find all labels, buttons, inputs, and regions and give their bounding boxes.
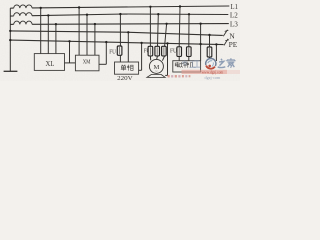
wire welder lead 1 <box>178 7 181 47</box>
wire PE bond drop 3 <box>141 43 143 70</box>
node N tap welder <box>208 34 210 36</box>
node L2 tap XM <box>86 14 88 16</box>
node star-N junction <box>9 30 11 32</box>
watermark ghost 电 <box>183 60 188 65</box>
wire 220V phase drop from L2 <box>119 14 121 62</box>
wire PE bond drop 4 <box>167 43 169 75</box>
wire PE bond link 1 <box>65 62 76 64</box>
motor M1 circle <box>149 59 163 73</box>
watermark logo circle <box>206 58 216 69</box>
scan noise overlay <box>0 0 1 1</box>
watermark red small text under welder <box>168 75 191 78</box>
wire XM drop L3 <box>94 24 96 55</box>
ground electrode <box>4 70 18 72</box>
wire XL drop L3 <box>55 24 57 53</box>
node PE tap 3 <box>140 42 142 44</box>
node L3 tap welder <box>199 23 201 25</box>
wire motor lead 3 <box>165 24 167 47</box>
fuse FU 220V <box>119 46 121 55</box>
wire PE bond drop 2 <box>105 42 107 64</box>
node star-PE junction <box>9 39 11 41</box>
wire motor lead 2 <box>157 14 160 46</box>
node L3 tap XL <box>55 23 57 25</box>
wire welder lead 2 <box>188 14 190 47</box>
node PE tap 5 <box>215 43 217 45</box>
node L1 tap welder <box>179 5 181 7</box>
node PE tap 1 <box>68 40 70 42</box>
wire PE bond link 3 <box>139 69 142 71</box>
wire bus N <box>10 31 223 36</box>
box welder <box>173 61 201 72</box>
wire 220V neutral drop from N <box>127 32 129 62</box>
wire PE bond link 4 <box>165 74 167 76</box>
box XM <box>75 55 99 71</box>
node L2 tap XL <box>47 14 49 16</box>
watermark 之 <box>218 59 226 68</box>
wire XL drop L1 <box>40 8 42 54</box>
node PE tap 4 <box>166 42 168 44</box>
wire XL drop L2 <box>47 15 49 53</box>
node L1 tap XL <box>40 7 42 9</box>
node PE tap 2 <box>105 41 107 43</box>
label 电焊机 (welder) <box>175 62 193 68</box>
wire bus L3 <box>10 23 13 25</box>
node L1 tap motor <box>149 6 151 8</box>
inductor winding phase L3 <box>14 21 32 24</box>
wire XM drop L1 <box>78 8 80 56</box>
fuse FU welder N <box>209 47 211 57</box>
label 单相 (single-phase) <box>121 65 133 71</box>
motor base pedestal <box>147 75 165 78</box>
watermark 家 <box>227 58 235 67</box>
watermark ghost 工 <box>189 61 195 67</box>
wire PE bond link 2 <box>99 63 106 65</box>
fuse FU welder 2 <box>188 47 190 57</box>
wire transformer star-point vertical <box>9 8 11 71</box>
wire motor lead 1 <box>149 7 151 47</box>
inductor winding phase L2 <box>14 13 32 16</box>
inductor winding phase L1 <box>14 5 32 8</box>
wire XM drop L2 <box>86 15 88 56</box>
box single-phase 220V <box>115 62 139 74</box>
node PE crossing junction <box>199 43 201 45</box>
watermark faint 工 <box>194 61 200 67</box>
wire bus L1 <box>10 7 13 9</box>
fuse FU motor 2 <box>156 46 158 56</box>
wire bus PE <box>10 40 223 45</box>
node L3 tap XM <box>94 23 96 25</box>
switch blade PE <box>224 39 228 46</box>
node N tap 220V <box>127 31 129 33</box>
watermark pink band <box>182 70 228 74</box>
node L2 tap 220V <box>119 13 121 15</box>
switch blade N <box>223 30 227 37</box>
wire welder lead 3 from L3 <box>200 24 202 61</box>
wire bus L2 <box>10 15 13 17</box>
fuse FU motor 1 <box>149 46 151 56</box>
node L2 tap welder <box>188 13 190 15</box>
node L3 tap motor <box>165 23 167 25</box>
fuse FU welder 1 <box>178 47 180 57</box>
wire PE bond drop 1 <box>69 41 71 63</box>
node L2 tap motor <box>157 13 159 15</box>
fuse FU motor 3 <box>163 46 165 56</box>
wire PE bond drop 5 (right) <box>215 44 217 61</box>
wire welder N lead <box>209 35 211 47</box>
box XL <box>34 54 64 71</box>
node L1 tap XM <box>78 6 80 8</box>
